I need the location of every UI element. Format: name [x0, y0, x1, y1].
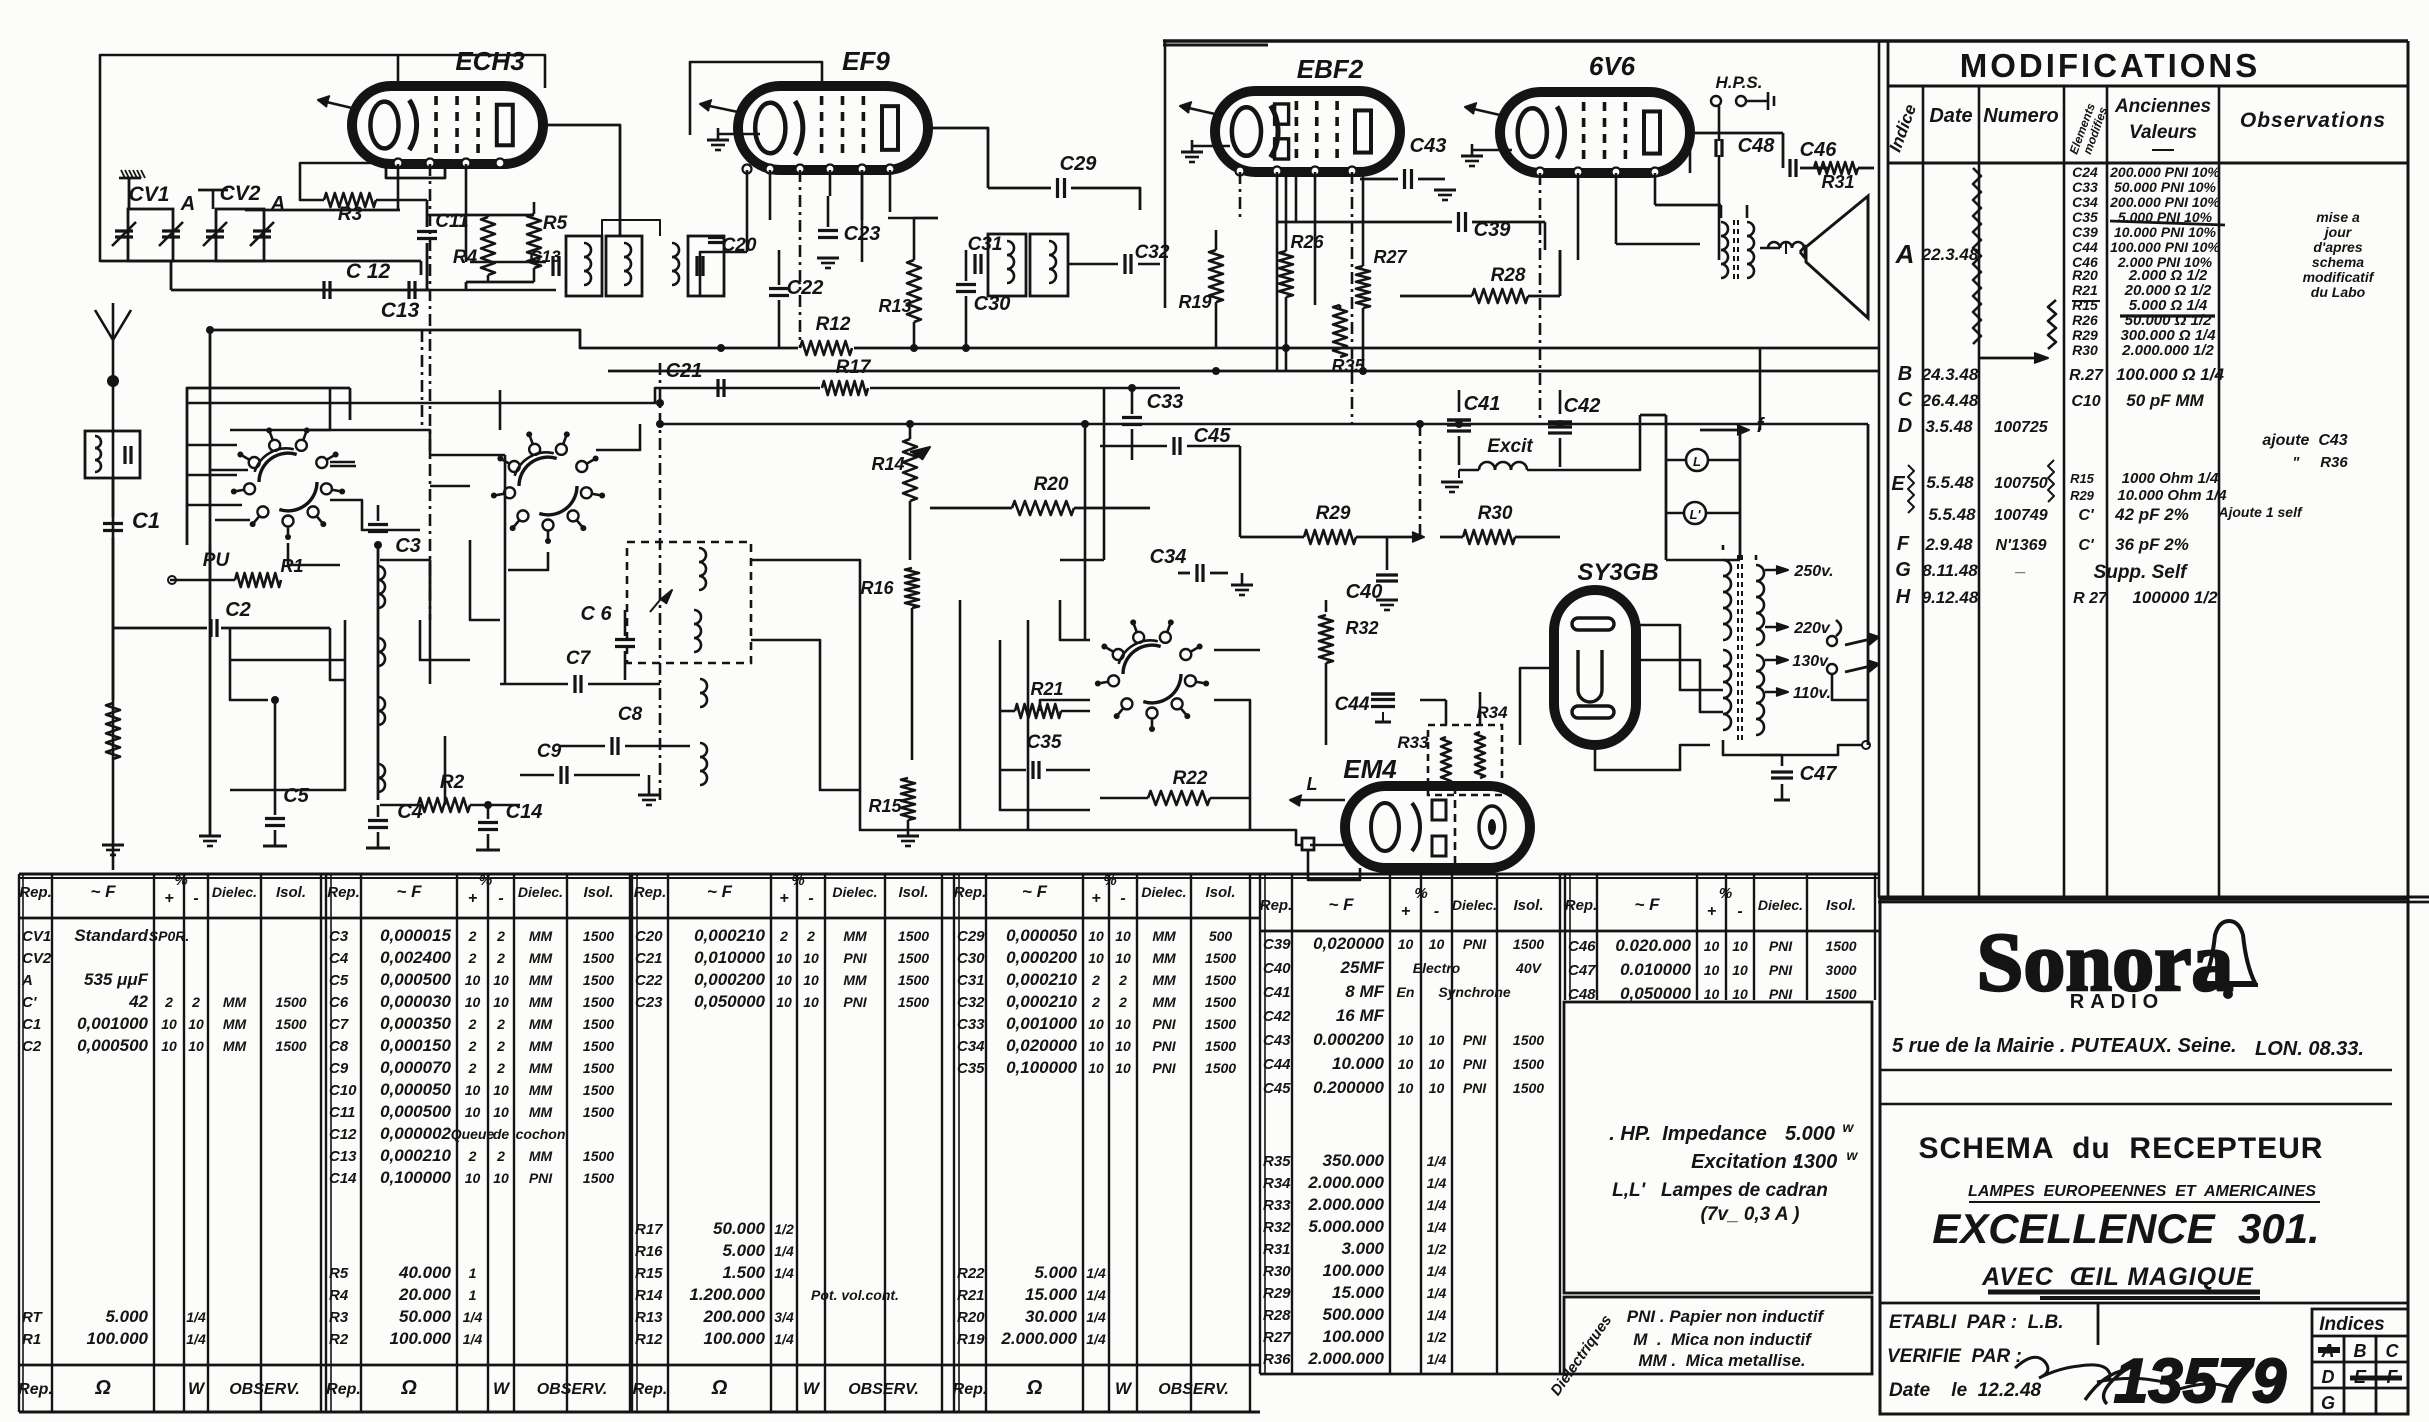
- svg-text:Rep.: Rep.: [953, 1381, 988, 1398]
- svg-text:200.000 PNI 10%: 200.000 PNI 10%: [2109, 194, 2220, 210]
- svg-text:Ω: Ω: [1026, 1377, 1043, 1399]
- table group1 cap rows: [21, 926, 307, 1055]
- svg-text:1/4: 1/4: [1427, 1219, 1447, 1235]
- svg-text:0,000210: 0,000210: [1006, 970, 1077, 989]
- svg-text:10: 10: [1398, 936, 1414, 952]
- resistor R4 vertical: [453, 215, 495, 282]
- svg-text:Rep.: Rep.: [327, 884, 360, 901]
- capacitor C23: [817, 196, 880, 268]
- svg-text:R30: R30: [2072, 342, 2098, 358]
- svg-text:10: 10: [1398, 1056, 1414, 1072]
- svg-text:100.000: 100.000: [87, 1329, 149, 1348]
- capacitor C34: [1150, 546, 1228, 582]
- svg-text:H.P.S.: H.P.S.: [1716, 73, 1763, 92]
- svg-text:10: 10: [803, 950, 819, 966]
- capacitor C43: [1360, 135, 1456, 200]
- wire socket3 box: [960, 600, 1240, 830]
- svg-text:%: %: [479, 872, 492, 889]
- svg-text:C39: C39: [2072, 224, 2098, 240]
- svg-text:2.000.000: 2.000.000: [1307, 1195, 1384, 1214]
- table footer texts: [18, 1377, 1229, 1399]
- svg-text:R33: R33: [1397, 733, 1429, 752]
- capacitor C4: [366, 801, 423, 848]
- svg-text:F: F: [1897, 533, 1910, 555]
- svg-text:1500: 1500: [1825, 938, 1856, 954]
- svg-text:-: -: [1737, 903, 1742, 920]
- svg-text:R20: R20: [957, 1309, 985, 1326]
- svg-text:R.27: R.27: [2069, 367, 2104, 384]
- svg-text:C42: C42: [1564, 395, 1601, 417]
- antenna: [95, 303, 131, 870]
- svg-text:C13: C13: [381, 299, 420, 322]
- dielectriques notes: [1627, 1307, 1826, 1370]
- resistor R29: [1240, 503, 1424, 544]
- svg-text:R14: R14: [871, 454, 904, 474]
- svg-text:1/4: 1/4: [1427, 1175, 1447, 1191]
- svg-text:0,010000: 0,010000: [694, 948, 765, 967]
- svg-text:0,000002: 0,000002: [380, 1124, 451, 1143]
- svg-text:1/4: 1/4: [186, 1309, 206, 1325]
- svg-text:C33: C33: [1147, 391, 1184, 413]
- modifications row A date: [1921, 245, 1979, 264]
- svg-text:C: C: [2386, 1341, 2400, 1361]
- svg-text:Rep.: Rep.: [18, 1381, 53, 1398]
- svg-text:+: +: [468, 890, 477, 907]
- vertical divider at EBF2 area: [1164, 41, 1167, 308]
- sheet right border: [2407, 41, 2410, 897]
- svg-text:C': C': [22, 994, 37, 1011]
- svg-text:R26: R26: [2072, 312, 2098, 328]
- resistor R5 vertical: [527, 202, 568, 282]
- IF transformer 1: [529, 235, 756, 296]
- svg-text:MM . Mica metallise.: MM . Mica metallise.: [1638, 1351, 1805, 1370]
- svg-text:0,000500: 0,000500: [380, 1102, 451, 1121]
- wire em4 link: [1240, 830, 1302, 845]
- wire CV bottom bus: [100, 261, 421, 275]
- modifications table left edge: [1887, 41, 1890, 897]
- svg-text:1500: 1500: [583, 928, 614, 944]
- svg-text:Isol.: Isol.: [276, 884, 306, 901]
- svg-text:10: 10: [161, 1016, 177, 1032]
- svg-text:R29: R29: [2070, 488, 2095, 503]
- svg-text:30.000: 30.000: [1025, 1307, 1078, 1326]
- resistor R35 vertical: [1331, 305, 1365, 376]
- svg-text:R28: R28: [1491, 265, 1526, 286]
- svg-text:100750: 100750: [1994, 475, 2047, 492]
- svg-text:1500: 1500: [1513, 1056, 1544, 1072]
- HPS terminals: [1711, 73, 1774, 110]
- svg-text:C43: C43: [1410, 135, 1447, 157]
- svg-text:En: En: [1397, 984, 1415, 1000]
- svg-text:1500: 1500: [583, 1016, 614, 1032]
- svg-text:2: 2: [496, 1016, 505, 1032]
- svg-text:22.3.48: 22.3.48: [1921, 245, 1979, 264]
- svg-text:10: 10: [1115, 928, 1131, 944]
- svg-text:R29: R29: [1263, 1285, 1291, 1302]
- lamp L2: [1666, 502, 1740, 524]
- svg-text:schema: schema: [2312, 254, 2364, 270]
- modifications column lines: [1923, 86, 2219, 897]
- svg-text:%: %: [1103, 872, 1116, 889]
- svg-text:~ F: ~ F: [1328, 895, 1354, 914]
- svg-text:jour: jour: [2323, 224, 2353, 240]
- svg-text:1500: 1500: [583, 994, 614, 1010]
- address line: [1892, 1035, 2237, 1057]
- svg-text:C34: C34: [2072, 194, 2098, 210]
- svg-text:-: -: [808, 890, 813, 907]
- svg-text:L: L: [1693, 454, 1701, 469]
- wire osc box right rail: [751, 560, 960, 830]
- svg-text:C11: C11: [329, 1104, 355, 1121]
- svg-text:R35: R35: [1263, 1153, 1291, 1170]
- svg-text:C5: C5: [283, 785, 309, 807]
- svg-text:PNI: PNI: [1463, 1032, 1487, 1048]
- svg-text:10: 10: [1088, 928, 1104, 944]
- svg-text:2: 2: [806, 928, 815, 944]
- wire left step b: [380, 560, 430, 600]
- svg-text:220v: 220v: [1793, 620, 1831, 637]
- oscillator coils: [650, 548, 706, 652]
- table column lines: [19, 874, 1875, 1412]
- svg-text:0,050000: 0,050000: [1620, 984, 1691, 1003]
- svg-text:Rep.: Rep.: [1260, 897, 1293, 914]
- svg-text:-: -: [193, 890, 198, 907]
- svg-text:R5: R5: [543, 213, 568, 234]
- wire socket1 pin stubs: [187, 445, 356, 565]
- tube ECH3 input arrow: [318, 96, 352, 108]
- wire 6v6 anode to transformer: [1616, 205, 1721, 244]
- svg-text:5.000: 5.000: [1034, 1263, 1077, 1282]
- svg-text:R21: R21: [957, 1287, 985, 1304]
- svg-text:100000 1/2: 100000 1/2: [2132, 588, 2218, 607]
- svg-text:PNI: PNI: [1152, 1060, 1176, 1076]
- svg-text:Dielec.: Dielec.: [832, 884, 877, 900]
- svg-text:Queue: Queue: [451, 1126, 495, 1142]
- wire from C42 to lamps: [1560, 415, 1740, 560]
- Sonora RADIO text: [2070, 991, 2164, 1013]
- svg-text:1500: 1500: [1205, 994, 1236, 1010]
- ground lower mid: [638, 775, 660, 805]
- signature: [2015, 1357, 2230, 1392]
- svg-text:10: 10: [776, 994, 792, 1010]
- wire grid line: [245, 209, 400, 212]
- svg-text:Ω: Ω: [711, 1377, 728, 1399]
- capacitor C7: [500, 648, 660, 693]
- svg-text:%: %: [174, 872, 187, 889]
- svg-text:Electro: Electro: [1413, 960, 1461, 976]
- svg-text:L: L: [1307, 774, 1318, 794]
- table group2 cap rows: [329, 926, 614, 1187]
- svg-text:13579: 13579: [2114, 1347, 2287, 1416]
- svg-text:500: 500: [1209, 928, 1233, 944]
- svg-text:1/4: 1/4: [774, 1331, 794, 1347]
- capacitor C42 filter: [1548, 390, 1600, 467]
- wire right risers: [1690, 133, 1760, 430]
- svg-text:2: 2: [468, 1148, 477, 1164]
- svg-text:R35: R35: [1331, 356, 1365, 376]
- SCHEMA du RECEPTEUR: [1919, 1132, 2324, 1165]
- dielectriques rotated label: [1547, 1312, 1615, 1399]
- svg-text:0,000210: 0,000210: [1006, 992, 1077, 1011]
- svg-text:C': C': [2078, 537, 2095, 554]
- svg-text:Rep.: Rep.: [633, 1381, 668, 1398]
- svg-text:C3: C3: [395, 535, 421, 557]
- svg-text:OBSERV.: OBSERV.: [1158, 1381, 1229, 1398]
- wire r33 box links: [1420, 692, 1480, 725]
- wire ECH3 anode right: [543, 125, 620, 236]
- svg-text:L': L': [1689, 507, 1701, 522]
- svg-text:~ F: ~ F: [707, 882, 733, 901]
- svg-text:50.000 PNI 10%: 50.000 PNI 10%: [2114, 179, 2217, 195]
- svg-text:50.000: 50.000: [399, 1307, 452, 1326]
- svg-text:1500: 1500: [1205, 972, 1236, 988]
- schematic right divider wire: [1878, 41, 1881, 897]
- svg-text:Rep.: Rep.: [634, 884, 667, 901]
- svg-text:MM: MM: [1152, 928, 1176, 944]
- resistor R32 vertical: [1319, 600, 1379, 745]
- svg-text:R31: R31: [1821, 172, 1854, 192]
- capacitor C13 label: [381, 299, 420, 322]
- svg-text:C29: C29: [1060, 153, 1098, 175]
- capacitor C21: [666, 360, 724, 397]
- mains switch: [1827, 620, 1879, 674]
- svg-text:w: w: [1847, 1147, 1859, 1163]
- wire osc box right rail 2: [751, 640, 860, 790]
- svg-text:100.000: 100.000: [1323, 1327, 1385, 1346]
- wire center rail b: [1249, 720, 1252, 830]
- EM4 internals: [1371, 786, 1505, 868]
- svg-text:1/4: 1/4: [1427, 1351, 1447, 1367]
- svg-text:C1: C1: [132, 508, 160, 533]
- resistor R33 R34 dashed box: [1397, 703, 1508, 795]
- resistor R30: [1440, 503, 1560, 544]
- capacitor C46: [1690, 133, 1837, 177]
- svg-text:10: 10: [188, 1038, 204, 1054]
- resistor R26 vertical: [1279, 172, 1324, 371]
- svg-text:1500: 1500: [898, 994, 929, 1010]
- svg-text:1500: 1500: [1205, 1016, 1236, 1032]
- svg-text:OBSERV.: OBSERV.: [229, 1381, 300, 1398]
- svg-text:5.5.48: 5.5.48: [1928, 505, 1976, 524]
- modifications row F: [1897, 533, 2189, 555]
- svg-text:0,000500: 0,000500: [77, 1036, 148, 1055]
- svg-text:15.000: 15.000: [1025, 1285, 1078, 1304]
- svg-text:Rep.: Rep.: [19, 884, 52, 901]
- svg-text:C29: C29: [957, 928, 985, 945]
- svg-text:MM: MM: [843, 972, 867, 988]
- svg-text:0,001000: 0,001000: [77, 1014, 148, 1033]
- svg-text:1500: 1500: [583, 1148, 614, 1164]
- svg-text:R16: R16: [635, 1243, 663, 1260]
- svg-text:200.000 PNI 10%: 200.000 PNI 10%: [2109, 164, 2220, 180]
- svg-text:MM: MM: [529, 972, 553, 988]
- modifications bottom line: [1878, 897, 2429, 902]
- svg-text:B: B: [2354, 1341, 2367, 1361]
- svg-text:R2: R2: [440, 772, 465, 793]
- wire c2 to c5 link: [230, 628, 268, 700]
- resistor R22: [1100, 768, 1250, 805]
- svg-text:2: 2: [496, 1060, 505, 1076]
- wire speaker links: [1760, 242, 1786, 254]
- svg-text:de: de: [493, 1126, 510, 1142]
- capacitor C3: [368, 505, 421, 557]
- svg-text:C23: C23: [635, 994, 663, 1011]
- svg-text:C40: C40: [1263, 960, 1291, 977]
- svg-text:1500: 1500: [898, 972, 929, 988]
- svg-text:Standard: Standard: [74, 926, 148, 945]
- svg-text:6V6: 6V6: [1589, 51, 1636, 81]
- svg-text:PNI: PNI: [1463, 936, 1487, 952]
- svg-text:C6: C6: [329, 994, 349, 1011]
- svg-text:R34: R34: [1476, 703, 1508, 722]
- wire EF9 top frame: [690, 62, 822, 135]
- socket 3 (EBF2 socket): [1095, 619, 1209, 732]
- svg-text:+: +: [1091, 890, 1100, 907]
- capacitor C29: [988, 153, 1140, 210]
- wire left staircase 4: [420, 620, 470, 805]
- svg-text:A: A: [21, 972, 33, 989]
- svg-text:G: G: [1895, 559, 1911, 581]
- svg-text:100.000: 100.000: [704, 1329, 766, 1348]
- svg-text:C 6: C 6: [580, 603, 612, 625]
- svg-text:CV2: CV2: [22, 950, 52, 967]
- svg-text:8 MF: 8 MF: [1345, 982, 1384, 1001]
- wire EF9 pins down: [770, 170, 862, 348]
- wire top-left frame: [100, 55, 545, 262]
- ground hatched above CV1: [119, 170, 145, 209]
- svg-text:C44: C44: [1335, 694, 1370, 715]
- svg-text:C20: C20: [635, 928, 663, 945]
- capacitor C8: [560, 704, 690, 755]
- svg-text:OBSERV.: OBSERV.: [537, 1381, 608, 1398]
- wire left step a: [330, 628, 345, 680]
- svg-text:C4: C4: [397, 801, 423, 823]
- modifications row B: [1898, 363, 2225, 385]
- svg-text:Ajoute 1 self: Ajoute 1 self: [2217, 504, 2303, 520]
- svg-text:1500: 1500: [583, 1104, 614, 1120]
- Sonora logo bell: [2198, 921, 2258, 999]
- wires around sockets: [210, 388, 640, 684]
- svg-text:10: 10: [493, 1082, 509, 1098]
- svg-text:10: 10: [1115, 950, 1131, 966]
- svg-text:16 MF: 16 MF: [1336, 1006, 1385, 1025]
- modifications row D: [1898, 415, 2349, 471]
- svg-text:1/4: 1/4: [1086, 1309, 1106, 1325]
- svg-text:C35: C35: [957, 1060, 985, 1077]
- wire socket2 bottom drop: [508, 552, 548, 570]
- svg-text:MM: MM: [223, 1038, 247, 1054]
- svg-text:1500: 1500: [1205, 950, 1236, 966]
- svg-text:R15: R15: [635, 1265, 663, 1282]
- svg-text:10: 10: [161, 1038, 177, 1054]
- svg-text:~ F: ~ F: [90, 882, 116, 901]
- svg-text:1000 Ohm 1/4: 1000 Ohm 1/4: [2122, 470, 2219, 487]
- svg-text:R3: R3: [329, 1309, 349, 1326]
- svg-text:10: 10: [465, 1104, 481, 1120]
- svg-text:Dielec.: Dielec.: [518, 884, 563, 900]
- capacitor C33: [1122, 390, 1183, 460]
- svg-text:1500: 1500: [1513, 1032, 1544, 1048]
- svg-text:10: 10: [465, 1082, 481, 1098]
- lower coils: [700, 679, 707, 785]
- svg-text:MM: MM: [1152, 972, 1176, 988]
- svg-text:C13: C13: [329, 1148, 357, 1165]
- svg-text:C48: C48: [1568, 986, 1596, 1003]
- svg-text:C10: C10: [2071, 393, 2100, 410]
- svg-text:0,020000: 0,020000: [1006, 1036, 1077, 1055]
- lamp L: [1666, 449, 1740, 471]
- svg-text:500.000: 500.000: [1323, 1305, 1385, 1324]
- svg-text:24.3.48: 24.3.48: [1921, 365, 1979, 384]
- tube 6V6 input arrow: [1465, 103, 1500, 115]
- resistor R2: [380, 772, 520, 812]
- svg-text:Pot. vol.cont.: Pot. vol.cont.: [811, 1287, 899, 1303]
- svg-text:1/4: 1/4: [1086, 1265, 1106, 1281]
- svg-text:-: -: [498, 890, 503, 907]
- svg-text:C35: C35: [2072, 209, 2098, 225]
- svg-text:1/4: 1/4: [1427, 1307, 1447, 1323]
- tube EBF2 input arrow: [1180, 102, 1215, 114]
- svg-text:1/4: 1/4: [1427, 1197, 1447, 1213]
- svg-text:MM: MM: [1152, 994, 1176, 1010]
- svg-text:R27: R27: [1263, 1329, 1291, 1346]
- svg-text:R32: R32: [1263, 1219, 1291, 1236]
- svg-text:1500: 1500: [583, 972, 614, 988]
- svg-text:MM: MM: [529, 1060, 553, 1076]
- socket 1 box: [187, 388, 350, 545]
- wire HT bus line 2: [608, 370, 1879, 373]
- svg-text:PNI: PNI: [843, 994, 867, 1010]
- capacitor C11: [417, 200, 469, 290]
- svg-text:0,000150: 0,000150: [380, 1036, 451, 1055]
- svg-text:Date: Date: [1929, 105, 1972, 127]
- svg-text:D: D: [1898, 415, 1912, 437]
- svg-text:PNI . Papier non inductif: PNI . Papier non inductif: [1627, 1307, 1826, 1326]
- svg-text:R4: R4: [329, 1287, 349, 1304]
- svg-text:modificatif: modificatif: [2303, 269, 2375, 285]
- svg-text:0,050000: 0,050000: [694, 992, 765, 1011]
- svg-text:2: 2: [468, 928, 477, 944]
- ground antenna: [102, 845, 124, 855]
- capacitor C44: [1335, 694, 1395, 722]
- speaker horn: [1800, 196, 1868, 318]
- HP impedance note: [1609, 1119, 1858, 1225]
- AVEC OEIL MAGIQUE: [1981, 1263, 2260, 1298]
- svg-text:40V: 40V: [1515, 960, 1543, 976]
- resistor R16 vertical: [860, 568, 919, 760]
- svg-text:10: 10: [493, 1170, 509, 1186]
- svg-text:10: 10: [493, 972, 509, 988]
- svg-text:EF9: EF9: [842, 46, 890, 76]
- svg-text:C': C': [2078, 507, 2095, 524]
- svg-text:PNI: PNI: [1152, 1038, 1176, 1054]
- svg-text:N'1369: N'1369: [1996, 537, 2047, 554]
- power transformer core: [1738, 555, 1742, 740]
- tuning cap CV1: [112, 183, 195, 261]
- svg-text:Isol.: Isol.: [1513, 897, 1543, 914]
- svg-text:+: +: [779, 890, 788, 907]
- svg-text:+: +: [164, 890, 173, 907]
- capacitor C41 filter: [1447, 390, 1500, 465]
- wire bus line 4: [660, 424, 1868, 745]
- capacitor C1: [103, 478, 160, 700]
- svg-text:W: W: [493, 1379, 511, 1398]
- svg-text:C41: C41: [1263, 984, 1291, 1001]
- table group1 res rows: [22, 1307, 206, 1348]
- svg-text:C1: C1: [22, 1016, 41, 1033]
- svg-text:10: 10: [1088, 1016, 1104, 1032]
- svg-text:100.000: 100.000: [1323, 1261, 1385, 1280]
